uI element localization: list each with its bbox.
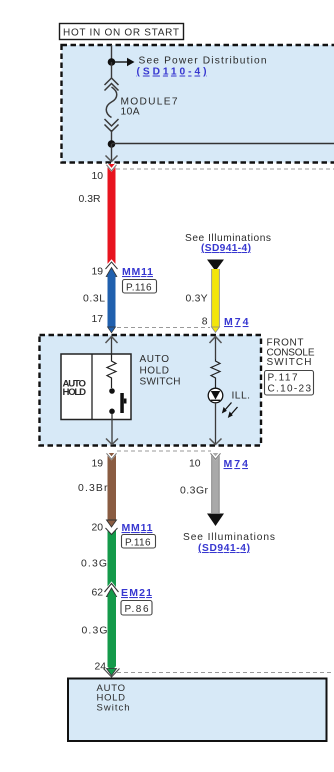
label AUTO HOLD SWITCH <box>140 354 181 388</box>
junction node A (top) <box>108 58 116 66</box>
lamp ILL. (LED) <box>208 388 223 403</box>
connector EM21 junction (pin 62) <box>105 584 119 597</box>
svg-text:HOT IN ON OR START: HOT IN ON OR START <box>63 28 179 39</box>
svg-text:19: 19 <box>91 267 103 278</box>
wire from lamp to box exit <box>210 403 222 445</box>
svg-text:HOLD: HOLD <box>63 387 87 398</box>
svg-text:AUTO: AUTO <box>140 354 170 365</box>
reference box P.86 <box>121 601 152 616</box>
wire: exit to red wire with arrowhead <box>106 144 118 162</box>
label FRONT CONSOLE SWITCH <box>267 338 315 368</box>
reference box P.117 C.10-23 <box>265 371 314 396</box>
wire into switch (left) with chevron <box>106 336 118 354</box>
svg-text:P.86: P.86 <box>125 604 149 615</box>
svg-text:Switch: Switch <box>97 703 130 714</box>
svg-text:P.116: P.116 <box>126 283 152 294</box>
svg-text:0.3G: 0.3G <box>82 626 108 637</box>
svg-text:8: 8 <box>202 317 208 328</box>
svg-text:HOLD: HOLD <box>140 366 170 377</box>
wire into lamp (right) with chevron <box>210 336 222 359</box>
svg-text:(SD941-4): (SD941-4) <box>201 243 251 254</box>
svg-text:0.3L: 0.3L <box>83 294 105 305</box>
illumination arrows <box>222 403 238 419</box>
resistor in lamp branch <box>211 359 220 381</box>
svg-text:See Illuminations: See Illuminations <box>183 532 275 543</box>
wire from switch to box exit <box>106 414 118 445</box>
reference box P.116 <box>123 280 157 294</box>
svg-text:M74: M74 <box>224 316 249 328</box>
arrow to See Power Distribution <box>112 58 135 67</box>
switch contact upper <box>109 388 115 394</box>
power distribution dashed box <box>62 45 334 163</box>
svg-text:(SD941-4): (SD941-4) <box>198 543 250 554</box>
wire resistor to contact <box>111 380 113 388</box>
label HOT IN ON OR START <box>60 24 184 40</box>
svg-text:62: 62 <box>91 588 103 599</box>
connector boundary dashed line (pins 19 / 10 bottom of console) <box>117 450 211 452</box>
switch actuator bar <box>120 393 126 413</box>
connector boundary dashed line (pin 24) <box>117 672 334 674</box>
wire 0.3Gr gray <box>211 452 221 513</box>
svg-text:10A: 10A <box>121 107 140 118</box>
svg-text:SWITCH: SWITCH <box>140 377 181 388</box>
wire 0.3G green upper <box>106 528 118 589</box>
value label MODULE7 10A <box>121 97 178 118</box>
connector MM11 junction (pin 19) <box>105 262 118 277</box>
wire 0.3R red <box>107 164 117 270</box>
auto hold switch box <box>61 354 131 420</box>
switch contact lower <box>109 409 115 415</box>
svg-text:0.3G: 0.3G <box>81 559 107 570</box>
auto hold switch component box <box>68 679 327 742</box>
reference box P.116 (bottom) <box>122 535 156 549</box>
svg-text:M74: M74 <box>224 458 249 470</box>
front console switch dashed box <box>40 335 262 446</box>
arrow to illuminations (bottom) <box>207 514 224 527</box>
svg-text:0.3Y: 0.3Y <box>186 294 208 305</box>
svg-text:MM11: MM11 <box>122 266 153 278</box>
wire 0.3Br brown <box>107 452 117 527</box>
svg-text:EM21: EM21 <box>121 587 152 599</box>
svg-text:0.3Br: 0.3Br <box>78 483 108 494</box>
svg-text:See Power Distribution: See Power Distribution <box>139 56 267 67</box>
wire 0.3L blue <box>108 275 116 333</box>
svg-text:MM11: MM11 <box>122 522 153 534</box>
svg-text:20: 20 <box>91 523 103 534</box>
svg-text:P.117: P.117 <box>268 373 298 384</box>
svg-text:10: 10 <box>189 459 201 470</box>
svg-text:(SD110-4): (SD110-4) <box>137 67 207 78</box>
svg-text:C.10-23: C.10-23 <box>268 384 312 395</box>
svg-text:10: 10 <box>91 171 103 182</box>
resistor in switch branch <box>107 354 116 380</box>
connector boundary dashed line (pin 10 top) <box>116 168 334 170</box>
svg-text:P.116: P.116 <box>125 538 151 549</box>
svg-text:ILL.: ILL. <box>232 391 251 402</box>
svg-text:24: 24 <box>94 662 106 673</box>
wire: horizontal feed to right <box>112 143 334 145</box>
connector boundary dashed line (pins 17 / 8) <box>117 327 210 329</box>
fuse MODULE7 10A <box>105 62 119 144</box>
svg-text:0.3R: 0.3R <box>79 194 101 205</box>
junction node B (bottom of fuse) <box>108 140 116 148</box>
wire resistor to lamp <box>215 381 217 389</box>
svg-text:0.3Gr: 0.3Gr <box>180 486 209 497</box>
wire 0.3G green lower <box>104 596 120 678</box>
svg-text:19: 19 <box>91 459 103 470</box>
wire 0.3Y yellow <box>211 269 219 333</box>
wire: feed from top border to junction <box>111 45 113 62</box>
arrow from illuminations <box>207 260 224 272</box>
svg-text:17: 17 <box>91 314 103 325</box>
